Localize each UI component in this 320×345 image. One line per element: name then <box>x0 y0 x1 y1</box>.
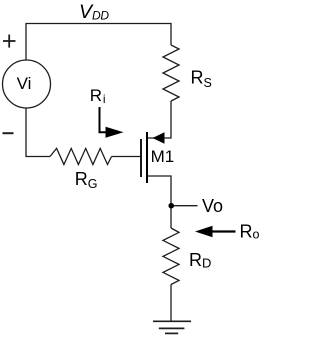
arrow Ro <box>212 230 236 232</box>
wire node to Vo <box>174 205 198 207</box>
resistor RD <box>163 228 179 285</box>
transistor M1 gate bar <box>140 139 142 177</box>
transistor M1 source arrow <box>153 132 165 143</box>
svg-text:M1: M1 <box>151 147 175 166</box>
wire RG to gate <box>112 156 142 158</box>
resistor RG <box>50 148 112 164</box>
svg-text:Vi: Vi <box>17 74 32 93</box>
wire RD to ground <box>170 285 172 321</box>
wire node to RD <box>170 208 172 228</box>
resistor RS <box>163 45 179 101</box>
wire RS bottom to M1 source <box>147 101 171 138</box>
minus polarity mark <box>3 132 14 134</box>
arrow Ri <box>100 107 107 132</box>
wire left rail lower <box>26 108 50 157</box>
ground <box>153 321 191 333</box>
source Vi circle <box>3 60 51 108</box>
wire top rail VDD <box>26 24 171 61</box>
wire M1 drain to node <box>147 176 171 203</box>
svg-text:Vo: Vo <box>202 196 223 216</box>
plus polarity mark <box>3 35 16 48</box>
node Vo dot <box>168 203 174 209</box>
transistor M1 channel bar <box>146 132 148 183</box>
